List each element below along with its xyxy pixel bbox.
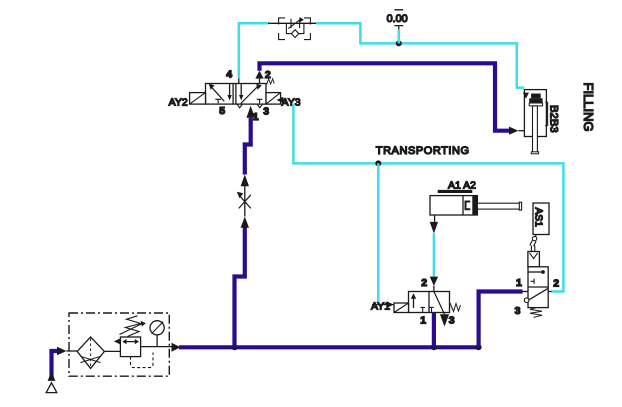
pilot AY2 (169, 93, 206, 109)
svg-text:1: 1 (253, 111, 259, 123)
svg-text:AY1: AY1 (371, 301, 390, 313)
wire: main supply line (pressurized) (179, 345, 479, 349)
svg-text:0.00: 0.00 (387, 13, 408, 25)
svg-text:1: 1 (516, 277, 522, 289)
roller lever linkage (530, 235, 537, 252)
valve AY1 3/2 (409, 292, 461, 327)
junction: supply to AY1 (431, 344, 437, 350)
pilot AY3 (266, 93, 301, 109)
pressure gauge (150, 321, 164, 347)
wire: source to service unit (pressurized) (48, 347, 78, 381)
svg-text:TRANSPORTING: TRANSPORTING (376, 145, 470, 157)
wire: supply to AS1 port 1 (pressurized) (479, 292, 528, 348)
svg-text:3: 3 (449, 315, 455, 327)
svg-text:A1 A2: A1 A2 (448, 179, 476, 191)
svg-text:3: 3 (263, 105, 269, 117)
junction: pilot branch (375, 160, 381, 166)
svg-text:AS1: AS1 (532, 208, 543, 228)
svg-text:AY2: AY2 (169, 96, 188, 108)
wire: valve port 2 to cylinder bottom (pressurized) (255, 63, 524, 135)
wire: AY1 port 1 to supply (pressurized) (432, 313, 436, 348)
svg-text:2: 2 (553, 278, 559, 290)
throttle valve (237, 186, 251, 217)
svg-text:5: 5 (219, 105, 225, 117)
junction: gauge tap (396, 40, 402, 46)
cylinder FILLING (vertical, rod down) (523, 90, 548, 154)
svg-text:3: 3 (515, 305, 521, 317)
svg-text:2: 2 (421, 277, 427, 289)
svg-text:AY3: AY3 (282, 96, 301, 108)
pin 2 (260, 69, 271, 84)
wire: cylinder A port to AY1 port 2 (exhausted) (430, 215, 438, 292)
svg-text:1: 1 (420, 315, 426, 327)
compressed air source (46, 383, 57, 393)
svg-text:B2B3: B2B3 (548, 105, 560, 133)
wire: port 4 to flow control (exhausted) (239, 23, 269, 78)
pressure regulator (114, 316, 153, 368)
wire: AY3 pilot line (exhausted) (293, 104, 563, 292)
valve 5/2 double pilot (206, 79, 275, 108)
pin 4 (226, 69, 239, 84)
valve AS1 3/2 roller (vertical) (524, 252, 548, 318)
wire: riser to throttle (pressurized) (235, 217, 250, 348)
filter with water separator (77, 337, 120, 369)
svg-text:4: 4 (226, 69, 232, 81)
pilot AY1 (371, 301, 409, 313)
cylinder TRANSPORTING (A1 A2) (430, 190, 522, 215)
svg-text:2: 2 (265, 69, 271, 81)
pressure display 0.00 (387, 10, 408, 44)
limit switch AS1 label box (532, 203, 549, 235)
wire: throttle to valve port 1 (pressurized) (241, 106, 255, 186)
one-way flow control valve (268, 17, 317, 40)
wire: flow control to cylinder cap (exhausted) (316, 23, 524, 87)
junction: supply to 5/2 riser (232, 344, 238, 350)
wire: service unit output (141, 343, 181, 352)
wire: pilot branch to AY1 (exhausted) (377, 163, 380, 302)
svg-text:FILLING: FILLING (581, 83, 596, 132)
junction: supply corner to AS1 (476, 344, 482, 350)
air service unit enclosure (69, 313, 169, 376)
